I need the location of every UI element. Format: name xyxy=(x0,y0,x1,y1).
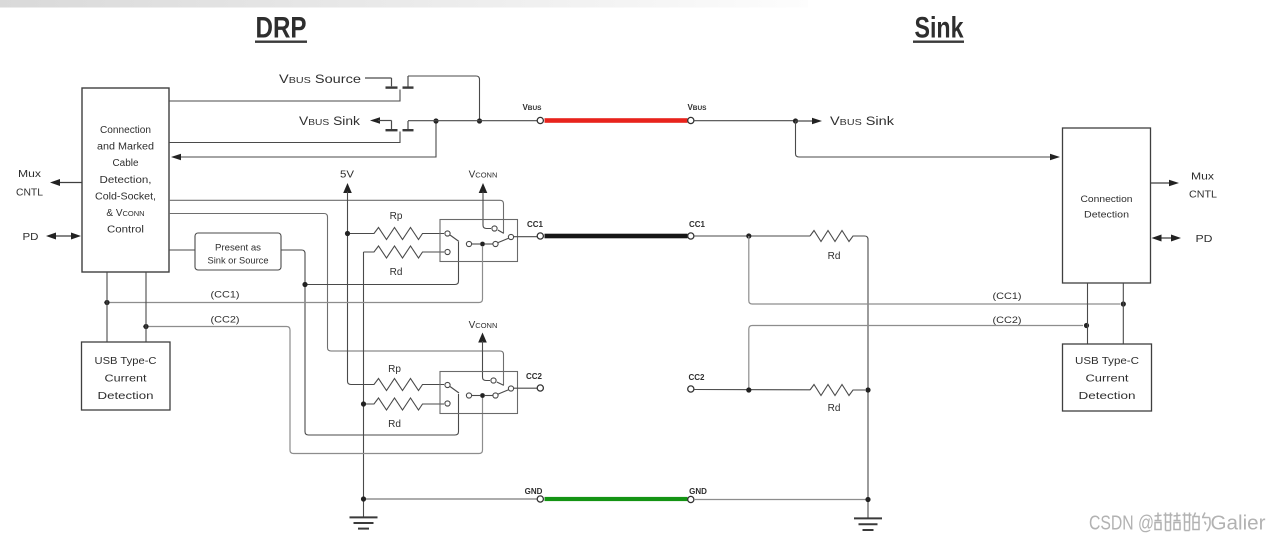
svg-text:VBUS Source: VBUS Source xyxy=(279,74,361,86)
svg-text:VCONN: VCONN xyxy=(469,320,498,331)
pin VBUS left port circle xyxy=(537,117,543,123)
node 5V to Rp1 junction xyxy=(345,231,350,236)
node sink CC2 sense junction xyxy=(1084,323,1089,328)
Mux CNTL output arrow (left) xyxy=(16,169,82,199)
node sink CC1 junction xyxy=(746,233,751,238)
svg-text:and Marked: and Marked xyxy=(97,142,154,153)
block USB Type-C Current Detection (right) xyxy=(1063,344,1152,411)
wire U1 control to CC1 switch VCONN contact (grey) xyxy=(169,200,504,233)
resistor Rd3 (sink CC1) xyxy=(810,231,865,263)
svg-text:VBUS: VBUS xyxy=(522,103,542,112)
svg-text:Rp: Rp xyxy=(388,364,401,375)
wire Present-as to switch wipers xyxy=(281,250,459,435)
wire sink CC2 line xyxy=(694,389,810,391)
svg-text:Rd: Rd xyxy=(388,419,401,430)
svg-text:Connection: Connection xyxy=(1081,194,1133,205)
node CC2 sense junction left xyxy=(143,324,148,329)
transistor Q1 VBUS Source FET xyxy=(386,76,414,88)
resistor Rd4 (sink CC2) xyxy=(810,385,865,415)
svg-text:Sink: Sink xyxy=(915,12,964,45)
svg-text:USB Type-C: USB Type-C xyxy=(95,356,157,367)
wire CC2 sense line (grey) xyxy=(143,327,483,454)
pin VBUS right port circle xyxy=(688,117,694,123)
node Rd4 tap on ground rail xyxy=(865,387,870,392)
svg-text:PD: PD xyxy=(23,232,39,243)
title Sink xyxy=(913,12,964,45)
wire VCONN feed to CC2 switch xyxy=(483,341,491,381)
wire GND right xyxy=(694,499,868,501)
pin CC1 right port circle xyxy=(688,233,694,239)
svg-text:CC1: CC1 xyxy=(527,220,544,229)
pin CC2 left port circle xyxy=(537,385,543,391)
svg-text:VBUS: VBUS xyxy=(687,103,707,112)
wire Q1 drain to VBUS node xyxy=(408,76,480,121)
node CC1 sense junction left xyxy=(104,300,109,305)
node sink CC1 sense junction xyxy=(1121,301,1126,306)
svg-text:(CC2): (CC2) xyxy=(993,315,1022,326)
svg-text:Galier: Galier xyxy=(1211,513,1266,535)
cable CC1 (black) xyxy=(545,234,688,239)
svg-text:Present as: Present as xyxy=(215,243,262,253)
pin CC2 right port circle xyxy=(688,386,694,392)
svg-text:Detection: Detection xyxy=(98,391,154,402)
block U1 Connection and Marked Cable Detection, Cold-Socket, & VCONN Control xyxy=(82,88,169,272)
switch SW1 (CC1) box xyxy=(440,220,537,262)
svg-text:CC1: CC1 xyxy=(689,220,706,229)
wire VCONN feed to CC1 switch xyxy=(483,192,491,229)
svg-text:(CC1): (CC1) xyxy=(211,290,240,301)
power VCONN arrow (CC2) xyxy=(478,333,487,343)
svg-text:Control: Control xyxy=(107,225,144,236)
resistor Rp1 xyxy=(350,211,444,240)
watermark CSDN xyxy=(1089,513,1266,535)
label VBUS Sink with arrow xyxy=(299,116,392,128)
svg-text:Current: Current xyxy=(1086,374,1129,385)
node VBUS junction at x=479.5 xyxy=(477,118,482,123)
svg-text:VBUS Sink: VBUS Sink xyxy=(830,116,894,128)
pin CC1 left port circle xyxy=(537,233,543,239)
wire U1 control to CC2 switch VCONN contact (grey) xyxy=(169,214,504,386)
resistor Rp2 xyxy=(351,364,444,391)
Mux CNTL output arrow (right) xyxy=(1151,172,1218,201)
svg-text:Detection: Detection xyxy=(1079,391,1136,402)
switch SW2 (CC2) box xyxy=(440,372,537,414)
svg-text:CC2: CC2 xyxy=(526,372,543,381)
wire VBUS feedback into U1 with arrow (y=157) xyxy=(171,121,436,160)
svg-text:CSDN @: CSDN @ xyxy=(1089,513,1154,535)
wire sink CC2 sense (grey) xyxy=(749,326,1083,391)
svg-text:CNTL: CNTL xyxy=(1189,190,1217,201)
svg-text:VCONN: VCONN xyxy=(469,170,498,181)
wire Rd3 to ground rail xyxy=(865,236,869,518)
block USB Type-C Current Detection (left) xyxy=(82,342,171,410)
svg-text:5V: 5V xyxy=(340,170,354,181)
wire U1 to sink-FET source (y=142.5) xyxy=(169,132,400,143)
svg-text:Mux: Mux xyxy=(1191,172,1214,183)
svg-text:GND: GND xyxy=(525,487,543,496)
pin GND right port circle xyxy=(688,496,694,502)
svg-text:VBUS Sink: VBUS Sink xyxy=(299,116,360,128)
cable GND (green) xyxy=(545,497,688,501)
wire GND left xyxy=(364,498,538,500)
wire Connection Detection to USB box (left leg) xyxy=(1087,283,1089,344)
svg-text:USB Type-C: USB Type-C xyxy=(1075,356,1139,367)
transistor Q2 VBUS Sink FET xyxy=(386,121,414,131)
svg-text:Detection,: Detection, xyxy=(100,175,152,186)
wire sink VBUS to Connection Detection with arrow xyxy=(796,121,1061,160)
svg-text:Cold-Socket,: Cold-Socket, xyxy=(95,191,156,202)
title DRP xyxy=(255,12,307,45)
power 5V arrow xyxy=(343,183,352,193)
ground symbol right xyxy=(854,518,882,530)
wire sink CC1 line xyxy=(694,235,810,237)
wire U1 to left USB box (right leg) xyxy=(145,272,147,342)
block Connection Detection xyxy=(1063,128,1151,283)
label VBUS Source xyxy=(279,74,392,86)
PD bidirectional arrow (left) xyxy=(23,232,82,243)
svg-text:Rp: Rp xyxy=(390,211,403,222)
wire 5V rail xyxy=(348,192,375,385)
wire U1 to left USB box (left leg) xyxy=(106,272,108,342)
block Present as Sink or Source xyxy=(195,233,281,270)
node VBUS junction at x=436 xyxy=(433,118,438,123)
node Rd2 tap on ground rail xyxy=(361,401,366,406)
svg-text:Mux: Mux xyxy=(18,169,41,180)
node GND right junction xyxy=(865,497,870,502)
resistor Rd2 xyxy=(364,398,445,430)
power VCONN arrow (CC1) xyxy=(479,183,488,193)
svg-text:PD: PD xyxy=(1196,234,1213,245)
node sink VBUS junction xyxy=(793,118,798,123)
wire Rd1/ground rail vertical xyxy=(363,252,365,517)
svg-text:CNTL: CNTL xyxy=(16,188,43,199)
cable VBUS (red) xyxy=(545,118,688,123)
svg-text:GND: GND xyxy=(689,487,707,496)
wire CC1 sense line (grey) xyxy=(104,246,483,303)
svg-text:Sink or Source: Sink or Source xyxy=(208,256,269,266)
PD bidirectional arrow (right) xyxy=(1152,234,1213,245)
pin GND left port circle xyxy=(537,496,543,502)
wire Q2 drain to VBUS port xyxy=(408,120,537,122)
svg-text:Rd: Rd xyxy=(828,403,841,414)
svg-text:& VCONN: & VCONN xyxy=(106,208,144,219)
wire sink VBUS line xyxy=(694,120,796,122)
wire wiper branch to CC1 switch xyxy=(305,242,459,285)
svg-text:Detection: Detection xyxy=(1084,210,1129,221)
svg-text:(CC2): (CC2) xyxy=(211,315,240,326)
node wiper branch junction xyxy=(302,282,307,287)
svg-text:DRP: DRP xyxy=(256,12,307,45)
wire U1 to source-FET source (y=101) xyxy=(169,90,400,102)
svg-text:Cable: Cable xyxy=(113,158,139,169)
node sink CC2 junction xyxy=(746,387,751,392)
wire sink CC1 sense (grey) xyxy=(749,236,1120,304)
svg-text:(CC1): (CC1) xyxy=(993,291,1022,302)
svg-text:Current: Current xyxy=(105,374,147,385)
wire U1 to Present-as box xyxy=(169,249,195,251)
svg-text:CC2: CC2 xyxy=(688,373,705,382)
ground symbol left xyxy=(350,517,378,528)
node GND left junction xyxy=(361,496,366,501)
resistor Rd1 xyxy=(364,246,445,278)
svg-text:Rd: Rd xyxy=(390,267,403,278)
wire Connection Detection to USB box (right leg) xyxy=(1122,283,1124,344)
label VBUS Sink (sink side) with arrow xyxy=(796,116,895,128)
svg-text:Rd: Rd xyxy=(828,251,841,262)
svg-text:Connection: Connection xyxy=(100,125,151,136)
